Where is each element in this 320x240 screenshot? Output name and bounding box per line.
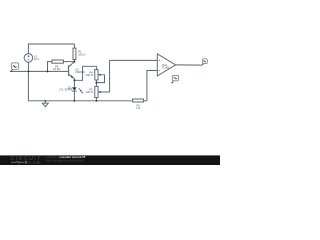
labels [34,50,170,111]
R4 wiper [98,74,100,76]
R3 wiper [98,91,100,93]
svg-text:100 Ω: 100 Ω [78,52,85,56]
wire op-amp output [176,64,202,66]
junction ground node [45,100,47,102]
svg-text:LTL-307EE: LTL-307EE [59,88,73,92]
svg-text:http://circuitlab.com/c/53z66b: http://circuitlab.com/c/53z66b6 [46,159,84,163]
svg-text:TL081: TL081 [162,66,170,70]
svg-text:2N3904: 2N3904 [75,70,85,74]
V1 minus sign [27,59,29,61]
wire top rail [28,44,74,54]
flag annotation at op-amp output [202,59,208,66]
flag annotation left [10,63,19,72]
svg-text:1 Ω: 1 Ω [136,106,140,110]
transistor Q1 emitter arrow [71,75,74,78]
junction Q1 collector node [73,61,75,63]
junction V1 negative node [27,70,29,72]
junction R4-R3 node [95,82,97,84]
LED D1 [73,80,75,87]
potentiometer R3 [95,86,98,97]
CircuitLab logo [11,156,42,165]
wire left stub to flag [10,70,29,72]
svg-text:12 V: 12 V [34,57,40,61]
svg-text:LAB: LAB [29,160,40,165]
flag annotation below op-amp [171,75,179,83]
junction Q1 emitter node [73,79,75,81]
wire V1 bottom lead [27,62,29,71]
resistor R6 [48,62,52,72]
wire V1 to bottom rail [28,71,132,100]
footer bar [0,155,220,165]
svg-text:100 Ω: 100 Ω [86,90,93,94]
op-amp OA1 [157,54,175,76]
wire right rail to op-amp plus input [110,60,158,92]
potentiometer R4 [95,70,98,80]
ground [42,101,48,107]
V1 plus sign [27,55,29,57]
wire base from node to Q1 [28,70,68,72]
junction R3 bottom at rail [95,100,97,102]
svg-text:100 Ω: 100 Ω [86,73,93,77]
junction D1 cathode at rail [73,100,75,102]
svg-text:10 kΩ: 10 kΩ [53,67,60,71]
wire emitter to R4 top [74,66,96,80]
transistor Q1 [69,62,75,67]
wire R2 to op-amp minus input [147,71,157,101]
junction R6 left node [47,70,49,72]
resistor R1 [73,48,76,59]
resistor R2 [133,99,144,102]
voltage source V1 [24,54,33,63]
LED emission arrows [79,88,83,93]
